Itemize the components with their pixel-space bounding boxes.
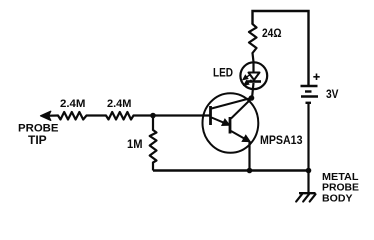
battery BT1 plate (short, negative) (306, 102, 312, 104)
wire: LED cathode to collector node (252, 83, 254, 98)
transistor Q1 collector stroke (second stage) (231, 99, 252, 119)
node: emitter/rail junction dot (247, 168, 253, 174)
svg-text:1M: 1M (127, 137, 143, 151)
label LED (213, 66, 233, 80)
ground (chassis) bar (299, 192, 316, 194)
wire: second resistor to base node and on to transistor base (134, 114, 211, 116)
wire: base node down to 1M (152, 116, 154, 131)
wire: probe tip to first resistor (44, 114, 58, 117)
resistor 1M (vertical zigzag) (150, 130, 157, 163)
transistor Q1 MPSA13 (envelope circle) (203, 93, 259, 153)
wire: top rail from 24-ohm branch to battery (253, 11, 309, 86)
svg-text:BODY: BODY (322, 192, 353, 204)
LED light-emission arrow (upper) (243, 74, 250, 79)
battery BT1 plate (short, negative) (305, 90, 312, 92)
LED cathode bar (247, 80, 262, 83)
transistor Q1 base bar (first darlington stage) (209, 106, 212, 125)
transistor Q1 collector stroke (first stage) (212, 98, 252, 109)
resistor 24 ohm (vertical zigzag) (249, 24, 257, 53)
label PROBE (body) (322, 181, 359, 193)
wire: bottom rail (153, 169, 309, 171)
transistor Q1 emitter stroke (second stage) with arrow (231, 131, 249, 141)
svg-text:LED: LED (213, 66, 233, 80)
label 2.4M (right) (107, 98, 132, 110)
LED D1 (circle) (240, 62, 267, 89)
resistor 2.4M (right, horizontal zigzag) (106, 112, 134, 120)
wire: battery negative down to chassis ground (307, 104, 309, 193)
label PROBE (18, 123, 59, 135)
svg-text:PROBE: PROBE (18, 123, 59, 135)
label BODY (322, 192, 353, 204)
svg-text:2.4M: 2.4M (60, 98, 86, 110)
svg-text:2.4M: 2.4M (107, 98, 132, 110)
transistor Q1 second base bar (second darlington stage) (229, 117, 232, 134)
label 2.4M (left) (60, 98, 86, 110)
label 24 ohm (262, 26, 282, 40)
label TIP (28, 135, 47, 147)
ground (chassis) hatch strokes (296, 194, 315, 201)
wire: 24-ohm to LED anode (253, 53, 254, 62)
wire: 1M to bottom rail (152, 163, 154, 171)
LED triangle (anode) (249, 73, 260, 81)
node: base junction dot (150, 113, 156, 119)
LED light-emission arrow (lower) (244, 80, 251, 85)
wire: emitter down to bottom rail (248, 141, 250, 171)
label METAL (322, 171, 359, 183)
LED anode lead inside (252, 62, 254, 73)
svg-text:TIP: TIP (28, 135, 47, 147)
battery BT1 3V: plus sign (313, 74, 319, 81)
battery BT1 plate (long, positive) (301, 85, 318, 88)
label MPSA13 (260, 133, 303, 147)
svg-text:24Ω: 24Ω (262, 26, 282, 40)
battery BT1 plate (long, positive) (301, 95, 318, 97)
node: rail/battery junction dot (306, 168, 312, 174)
label 3V (326, 87, 339, 101)
probe tip arrow (left pointing) (41, 111, 51, 120)
resistor 2.4M (left, horizontal zigzag) (58, 112, 87, 120)
svg-text:3V: 3V (326, 87, 339, 101)
wire: between the two 2.4M resistors (87, 114, 107, 116)
svg-text:MPSA13: MPSA13 (260, 133, 303, 147)
label 1M (127, 137, 143, 151)
transistor Q1 emitter stroke with arrow into second base (212, 118, 229, 126)
node: collector junction dot (249, 95, 255, 101)
